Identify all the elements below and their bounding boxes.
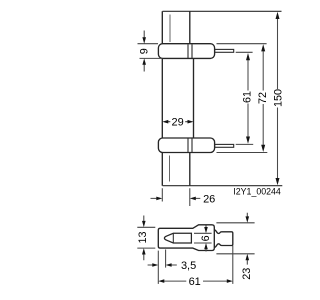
- clamp 2 screw lines: [188, 139, 192, 153]
- fuse cap top section edges: [162, 11, 190, 43]
- dim 61 stems: [247, 60, 249, 137]
- top view: clamp body outline with chamfer and block: [158, 225, 214, 251]
- fuse cap highlight line: [169, 15, 171, 43]
- top view: contact nib outline: [164, 233, 191, 243]
- svg-text:61: 61: [241, 91, 253, 103]
- svg-text:9: 9: [138, 48, 150, 54]
- svg-text:26: 26: [203, 194, 215, 206]
- dim 13 stems: [143, 216, 145, 261]
- dim 150 arrowheads: [276, 12, 280, 185]
- pin 2: [215, 144, 234, 147]
- dim 150 stems: [277, 19, 279, 179]
- dim 61 extension lines from pins: [236, 52, 254, 144]
- dim 13 arrowheads: [142, 221, 146, 255]
- clamp band 2: [158, 138, 214, 153]
- dim 29 stems: [168, 121, 189, 123]
- dim 6 extension lines: [194, 233, 212, 243]
- dim 3,5 arrowheads: [152, 263, 171, 267]
- dim 9 stems: [143, 31, 145, 72]
- dim 6 arrowheads: [204, 227, 208, 249]
- dim 72 extension lines: [217, 44, 268, 153]
- top view: nib cone base line: [172, 233, 174, 243]
- svg-text:13: 13: [137, 231, 149, 243]
- dim 61 bottom arrowheads: [158, 279, 233, 283]
- dim 3,5 left extension line: [157, 251, 159, 284]
- dim 61 arrowheads: [246, 53, 250, 144]
- dim 72 arrowheads: [261, 44, 265, 152]
- dim 61 bottom stems: [164, 280, 227, 282]
- dim 23 arrowheads: [246, 216, 250, 260]
- clamp band 1: [158, 44, 214, 59]
- dim 6 stems: [205, 226, 207, 252]
- svg-text:72: 72: [257, 92, 269, 104]
- stub highlight line: [169, 156, 171, 182]
- pin 1: [215, 49, 234, 52]
- fuse bottom edge line extended to 150-dim: [163, 185, 283, 187]
- svg-text:23: 23: [241, 268, 253, 280]
- dim 72 stems: [262, 51, 264, 145]
- dim 3,5 stems: [148, 264, 177, 266]
- dim 26 arrowheads: [156, 197, 196, 201]
- svg-text:29: 29: [171, 117, 183, 129]
- dim 61 bottom right extension line: [232, 246, 234, 284]
- dim 26 stems: [151, 197, 201, 199]
- dim 9 extension lines: [138, 44, 163, 59]
- dim 23 extension lines: [216, 223, 254, 254]
- top view: terminal tab with crimp notches: [214, 230, 233, 248]
- svg-text:I2Y1_00244: I2Y1_00244: [233, 186, 281, 196]
- fuse middle body section edges: [162, 58, 193, 138]
- clamp 1 screw lines: [188, 44, 192, 58]
- fuse top edge line extended to 150-dim: [163, 10, 282, 12]
- fuse bottom stub edges: [162, 153, 190, 186]
- svg-text:3,5: 3,5: [181, 260, 196, 272]
- svg-text:150: 150: [273, 89, 285, 107]
- dim 9 arrowheads: [142, 37, 146, 65]
- dim 3,5 nib tip extension line: [165, 250, 167, 268]
- dim 29 arrowheads: [162, 120, 193, 124]
- dim 26 extension lines: [162, 188, 190, 206]
- svg-text:61: 61: [189, 276, 201, 288]
- svg-text:6: 6: [200, 235, 212, 241]
- dim 13 extension lines: [137, 227, 155, 248]
- dim 23 stems: [246, 213, 248, 265]
